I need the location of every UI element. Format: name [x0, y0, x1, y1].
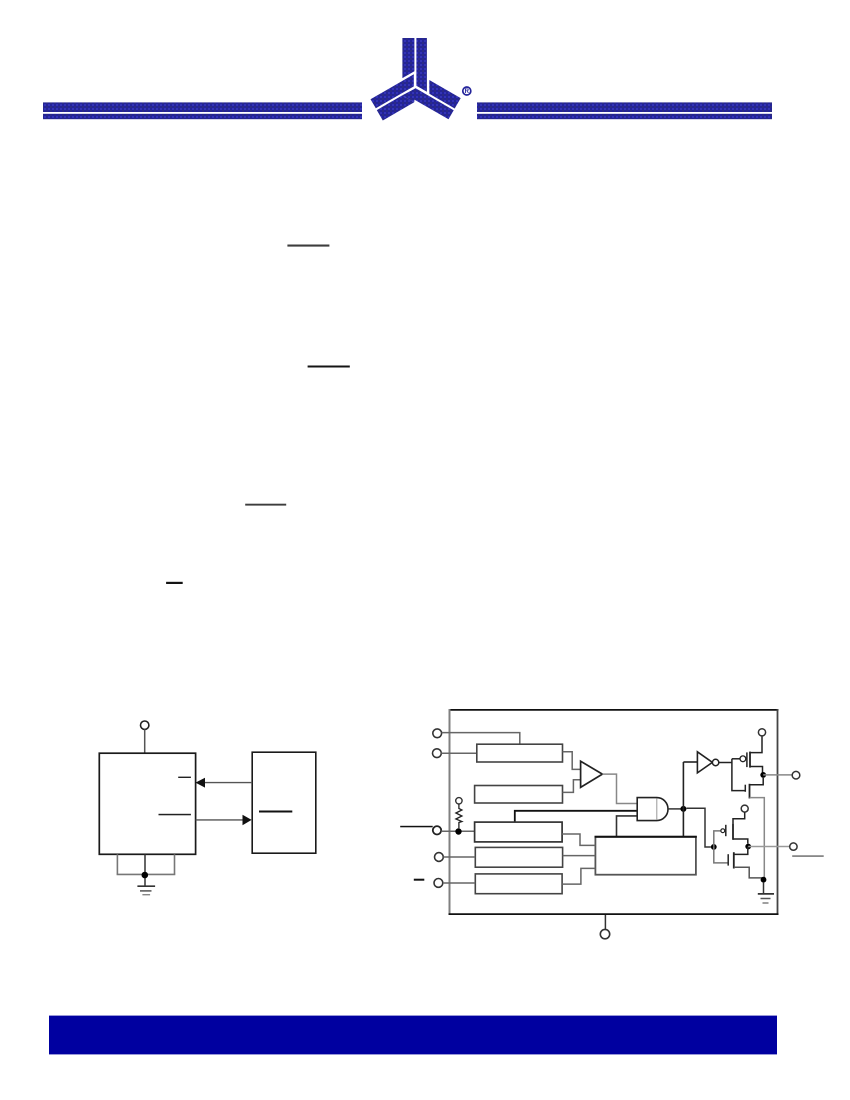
wire R3 to timer	[562, 834, 595, 845]
wire AND input from timer	[617, 816, 638, 837]
terminal VCC left	[141, 721, 149, 729]
terminal TO2	[790, 843, 797, 850]
overline label RESET in U1	[178, 777, 191, 778]
block R5	[475, 874, 562, 894]
junction dot D2	[760, 772, 766, 778]
wire vertical through D1	[682, 762, 684, 837]
overline label WDI in U1	[159, 814, 191, 816]
wire comparator to AND	[602, 774, 637, 803]
ground bus wire	[117, 873, 176, 875]
wire long AND input	[515, 811, 637, 822]
logo (three-prong mark)	[371, 38, 461, 121]
ground stub right	[174, 854, 176, 874]
comparator triangle	[581, 761, 603, 787]
block R1	[477, 744, 563, 762]
center ground wire	[144, 854, 146, 886]
header bar right	[477, 102, 772, 119]
ground symbol left diagram	[137, 886, 155, 895]
terminal TO1	[792, 771, 800, 779]
wire R4 to timer	[563, 855, 596, 857]
terminal T3	[433, 826, 441, 834]
transistor Q3	[726, 812, 748, 844]
junction dot D4	[745, 844, 751, 850]
wire T4 to R4	[443, 856, 475, 858]
overline label MR	[400, 826, 433, 828]
wire to output T01	[763, 774, 792, 776]
wire R2 to comparator	[563, 780, 581, 793]
block R2	[475, 786, 563, 804]
terminal T5	[434, 879, 443, 888]
junction dot D3	[711, 844, 717, 850]
registered trademark symbol	[463, 87, 471, 95]
block timer B1	[595, 837, 696, 875]
resistor zigzag	[456, 804, 462, 828]
block R4	[475, 847, 562, 867]
transistor Q3 gate bubble	[721, 829, 725, 833]
wire inverter out	[719, 762, 732, 764]
transistor Q1 gate bubble	[740, 756, 746, 762]
block R3	[475, 822, 562, 842]
junction dot	[142, 872, 149, 879]
header bar left	[43, 102, 362, 119]
AND gate	[637, 798, 668, 821]
overline 3	[245, 504, 286, 506]
wire T3 to R3	[441, 830, 474, 832]
wire AND output	[668, 808, 683, 810]
overline 1	[287, 245, 329, 247]
wire T5 to R5	[443, 882, 476, 884]
wire T1 to R1 top	[442, 733, 520, 745]
wire arrow into U1	[205, 782, 252, 784]
wire D4 to output TO2	[748, 846, 789, 848]
terminal T4	[435, 853, 444, 862]
pullup terminal	[456, 798, 462, 804]
terminal VCC right	[758, 729, 765, 736]
wire arrow into U2	[196, 819, 243, 821]
wire R1 to comparator	[563, 752, 581, 770]
box U2	[252, 752, 316, 853]
terminal T1	[433, 729, 442, 738]
transistor Q1	[747, 736, 763, 775]
overline 4	[166, 582, 183, 584]
wire D3 down to Q4 gate	[714, 847, 728, 863]
ground stub left	[116, 854, 118, 874]
wire	[144, 729, 146, 753]
footer bar	[49, 1016, 777, 1055]
arrowhead right	[243, 815, 252, 825]
overline label right of TO2	[792, 855, 824, 857]
ground pin wire	[604, 915, 606, 930]
box U1	[99, 753, 195, 854]
inverter triangle	[697, 752, 712, 773]
wire R5 to timer	[562, 868, 595, 884]
ground symbol right diagram	[758, 883, 774, 903]
ground pin terminal	[600, 929, 609, 938]
junction dot D1	[680, 806, 686, 812]
terminal T7	[741, 805, 748, 812]
IC outline box	[449, 709, 779, 915]
arrowhead left	[196, 778, 206, 788]
wire gate drop	[732, 759, 745, 791]
overline label SHDN	[414, 879, 425, 881]
wire T2 to R1	[441, 752, 477, 754]
overline 2	[308, 366, 350, 368]
transistor Q2	[745, 778, 764, 880]
wire D3 up to Q3 gate	[714, 831, 721, 847]
overline label in U2	[259, 811, 292, 813]
svg-text:R: R	[465, 89, 470, 95]
inverter bubble	[712, 759, 718, 765]
wire to inverter	[683, 761, 697, 763]
transistor Q4	[728, 847, 763, 878]
wire D1 to D3	[686, 808, 711, 847]
junction dot D5 ground	[761, 877, 767, 883]
terminal T2	[433, 749, 442, 758]
junction dot MR	[455, 828, 461, 834]
